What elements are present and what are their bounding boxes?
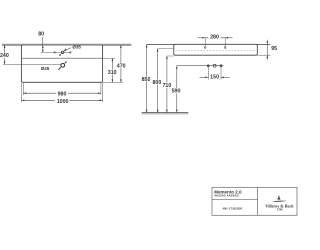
dimension 850: [146, 45, 148, 113]
logo swash: [272, 201, 287, 202]
hidden inner line: [176, 50, 256, 52]
dimension 800: [157, 49, 159, 113]
svg-text:4A22A5 4A22AG: 4A22A5 4A22AG: [214, 194, 239, 198]
basin outline (top view): [21, 45, 102, 82]
side tap hole left: [204, 47, 206, 49]
logo figure: [278, 196, 279, 197]
svg-text:800: 800: [152, 80, 161, 86]
optional tap hole left: [54, 52, 56, 54]
svg-text:590: 590: [172, 89, 181, 95]
svg-text:240: 240: [0, 53, 9, 59]
dimension 590: [176, 66, 178, 113]
dimension 710: [166, 56, 168, 113]
wall / top line: [147, 44, 271, 46]
svg-text:150: 150: [210, 75, 219, 81]
title block divider horizontal: [212, 198, 258, 200]
svg-text:Ø45: Ø45: [41, 66, 50, 71]
wall top line: [2, 44, 131, 46]
tap hole: [61, 51, 64, 54]
svg-text:Ø35: Ø35: [72, 44, 81, 49]
supply left circle: [207, 65, 209, 67]
dimension 310: [111, 58, 113, 82]
tap hole centerline: [41, 51, 72, 53]
drain hole: [61, 63, 65, 67]
tap hole leader arrows: [63, 48, 66, 51]
svg-text:1748: 1748: [277, 208, 283, 211]
svg-text:280: 280: [210, 35, 219, 41]
dimension 95: [257, 54, 270, 56]
svg-text:710: 710: [162, 83, 171, 89]
inner bowl edge line: [22, 57, 102, 59]
supply right circle: [220, 65, 222, 67]
basin front outline: [174, 44, 257, 55]
dimension 1000: [20, 83, 22, 102]
dimension 240: [4, 45, 6, 64]
optional tap hole right: [70, 52, 72, 54]
svg-text:980: 980: [58, 91, 67, 97]
drain leader arrows: [64, 61, 67, 64]
svg-text:1000: 1000: [57, 99, 69, 105]
floor line: [142, 112, 189, 114]
dimension 80: [42, 37, 44, 53]
drain circle front: [213, 64, 216, 67]
extension line 310 top: [103, 57, 115, 59]
side tap hole right: [224, 47, 226, 49]
svg-text:470: 470: [117, 63, 126, 69]
dimension 980: [22, 83, 24, 95]
svg-text:400 / 17.08.2020: 400 / 17.08.2020: [223, 207, 243, 211]
svg-text:80: 80: [38, 32, 44, 38]
floor hatch band: [142, 113, 189, 115]
dimension 280: [198, 37, 205, 39]
title block divider vertical: [257, 187, 259, 215]
dimension 150: [200, 76, 209, 78]
wall band: [2, 43, 131, 45]
supply line: [177, 65, 223, 67]
extension line 240 to drain: [3, 63, 61, 65]
dimension 470: [120, 45, 122, 82]
svg-text:95: 95: [271, 46, 277, 52]
title block frame: [212, 187, 297, 215]
svg-text:850: 850: [142, 77, 151, 83]
extension line bottom right: [103, 81, 124, 83]
svg-text:310: 310: [108, 70, 117, 76]
